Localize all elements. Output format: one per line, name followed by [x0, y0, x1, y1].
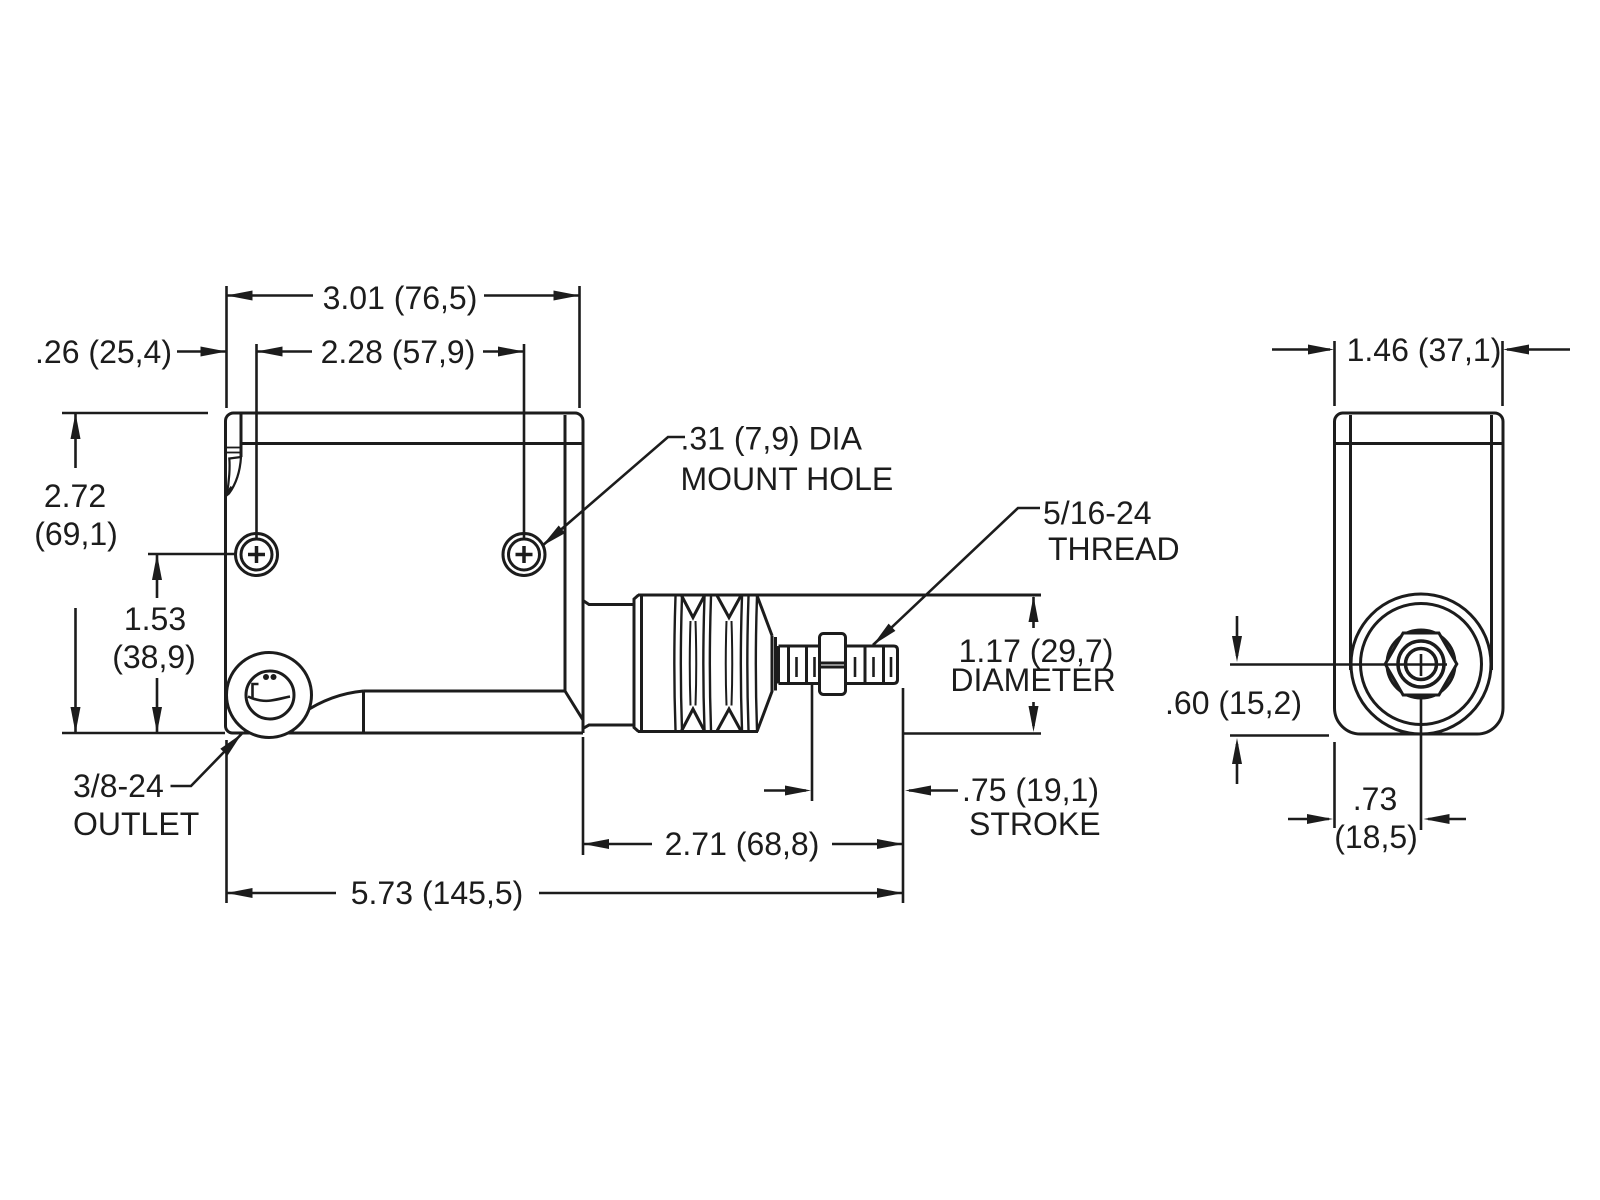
svg-text:THREAD: THREAD: [1048, 531, 1180, 567]
svg-text:3/8-24: 3/8-24: [73, 768, 164, 804]
body bottom edge: [233, 732, 584, 735]
cylinder snout top: [583, 601, 633, 605]
pushrod tick marks: [795, 657, 798, 677]
cylinder snout bottom: [583, 725, 633, 729]
boot nose slope bottom: [757, 692, 772, 732]
dim .75 arrows: [764, 789, 806, 792]
svg-text:STROKE: STROKE: [969, 806, 1101, 842]
dim 1.53 extension line: [148, 553, 235, 556]
boot retainer collar inner vertical: [640, 597, 643, 731]
bore horizontal centerline: [1230, 663, 1447, 666]
end view flange lip line: [1335, 442, 1504, 445]
bore circle behind hex: [1387, 630, 1455, 698]
master cylinder body side view: mounting flange top edge: [234, 413, 584, 421]
boot nose collar: [772, 636, 776, 693]
svg-text:(38,9): (38,9): [112, 639, 196, 675]
bore boss outer circle: [1351, 594, 1491, 734]
end view inner vertical left: [1349, 415, 1352, 670]
mount hole left: [236, 534, 278, 576]
svg-text:2.71 (68,8): 2.71 (68,8): [665, 826, 820, 862]
dim 1.17 bottom extension line: [903, 732, 1041, 735]
svg-text:.26 (25,4): .26 (25,4): [35, 334, 172, 370]
pushrod hex nut end view: [1385, 633, 1457, 695]
boot nose slope top: [757, 596, 772, 636]
boot bottom V-notch 2: [717, 709, 741, 731]
body right flange edge: [582, 421, 585, 733]
dim .73 extension line: [1333, 742, 1336, 828]
pushrod left end: [777, 646, 780, 684]
svg-text:2.28 (57,9): 2.28 (57,9): [321, 334, 476, 370]
outlet port keyway bracket: [253, 684, 259, 698]
boot bottom edge: [638, 730, 758, 733]
svg-text:.73: .73: [1353, 781, 1397, 817]
dim 2.28 line + arrows: [257, 350, 313, 353]
dim 1.17 line + arrows: [1032, 597, 1035, 628]
svg-text:DIAMETER: DIAMETER: [950, 662, 1115, 698]
dim 5.73 line + arrows: [227, 892, 337, 895]
pushrod outline: [779, 646, 898, 684]
boot valley fold lines: [689, 621, 692, 706]
outlet port inner circle: [246, 671, 294, 719]
svg-text:(69,1): (69,1): [34, 516, 118, 552]
dim .26 arrow: [177, 350, 226, 353]
dim 1.46 extension lines: [1333, 341, 1336, 406]
boot top V-notch 2: [717, 596, 741, 618]
dim 2.71 extension lines: [582, 737, 585, 855]
chamfer body to snout: [565, 691, 583, 720]
svg-text:OUTLET: OUTLET: [73, 806, 199, 842]
flange lip lower line: [241, 442, 583, 445]
dim 1.53 line + arrows: [156, 554, 159, 598]
dim 5.73 extension line left: [225, 740, 228, 903]
body inner right edge: [564, 415, 567, 691]
svg-text:1.53: 1.53: [124, 601, 186, 637]
dim .60 bottom extension line: [1230, 734, 1329, 737]
dim .73 arrows: [1288, 818, 1329, 821]
pushrod groove dividers: [787, 646, 790, 684]
outlet port seat dots: [263, 674, 269, 680]
svg-text:5.73 (145,5): 5.73 (145,5): [351, 875, 524, 911]
lip hatch lines: [227, 447, 240, 449]
bore inner circle 1: [1398, 641, 1444, 687]
dim 3.01 extension lines: [225, 286, 228, 408]
bore boss second circle: [1361, 604, 1482, 725]
dim 1.46 arrows: [1272, 348, 1330, 351]
dim 2.72 extension line top: [62, 412, 208, 415]
step tick: [362, 691, 365, 733]
svg-text:2.72: 2.72: [44, 478, 106, 514]
end view body outline: [1335, 413, 1504, 734]
svg-text:.31 (7,9) DIA: .31 (7,9) DIA: [681, 421, 863, 457]
bore crosshair vertical arm: [1420, 654, 1423, 676]
dim 2.71 line + arrows: [583, 843, 652, 846]
boot top V-notch 1: [682, 596, 705, 618]
thread leader: [873, 508, 1040, 645]
body left edge: [226, 413, 234, 733]
pushrod thread ticks: [854, 657, 857, 677]
flange lip inner vertical: [240, 414, 243, 457]
dim .75 stroke extension line: [811, 685, 814, 801]
pushrod thread dividers: [864, 646, 867, 684]
outlet leader: [171, 734, 243, 787]
pushrod hex nut: [820, 634, 846, 695]
dim 2.28 extension lines: [255, 344, 258, 538]
dim 3.01 line + arrows: [227, 294, 314, 297]
svg-text:1.46 (37,1): 1.46 (37,1): [1347, 332, 1502, 368]
outlet boss circle: [227, 653, 312, 738]
bottom step line: [364, 690, 566, 693]
svg-text:(18,5): (18,5): [1334, 819, 1418, 855]
boot retainer collar left edge: [634, 595, 639, 732]
svg-text:3.01 (76,5): 3.01 (76,5): [323, 280, 478, 316]
boot bottom V-notch 1: [682, 709, 705, 731]
outlet port wavy chord: [248, 697, 290, 701]
boot top edge + 1.17 top extension line: [638, 594, 1041, 597]
bottom S-curve to outlet boss: [303, 691, 364, 713]
svg-text:5/16-24: 5/16-24: [1043, 495, 1152, 531]
reservoir port crescent detail: [227, 457, 242, 496]
dim 2.72 line + arrows: [74, 413, 77, 468]
svg-text:.75 (19,1): .75 (19,1): [962, 772, 1099, 808]
svg-text:.60 (15,2): .60 (15,2): [1165, 685, 1302, 721]
bore inner circle 2: [1406, 649, 1437, 680]
mount hole leader: [542, 437, 685, 546]
bore vertical centerline lower: [1420, 697, 1423, 830]
dim .60 arrows: [1236, 616, 1239, 656]
mount hole right: [503, 534, 545, 576]
dim 2.72 bottom extension line: [62, 732, 225, 735]
svg-text:MOUNT HOLE: MOUNT HOLE: [681, 461, 894, 497]
boot lobe wall lines: [674, 597, 675, 731]
end view inner vertical right: [1490, 415, 1493, 670]
